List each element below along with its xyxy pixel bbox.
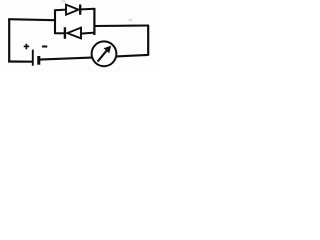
wire: top branch left [54, 9, 66, 12]
meter needle arrow [98, 49, 108, 61]
meter M1 (galvanometer) [92, 41, 117, 66]
wire: bottom branch right [81, 33, 95, 34]
wire: right vertical [147, 25, 149, 55]
wire: top branch right [81, 8, 95, 11]
diode D2 cathode bar [64, 27, 66, 39]
wire: battery to meter [40, 58, 92, 60]
wire: input top horizontal [8, 19, 55, 20]
battery minus label [42, 46, 47, 48]
wire: bottom left to battery [8, 60, 32, 62]
wire: bottom branch left [54, 32, 64, 34]
wire: output horizontal [95, 24, 150, 27]
wire: left vertical [8, 19, 10, 63]
wire: meter to right corner [117, 55, 149, 57]
node: left junction vertical [54, 10, 56, 34]
node: right junction vertical [93, 8, 95, 35]
battery plus label [24, 44, 30, 50]
diode D1 cathode bar [79, 5, 81, 15]
battery negative plate (short thick) [37, 56, 40, 65]
diode D1 triangle (points right) [66, 5, 79, 15]
diode D2 triangle (points left) [67, 28, 81, 39]
pink smudge right [128, 19, 133, 22]
pink smudge top [61, 0, 66, 2]
battery positive plate (long) [32, 50, 34, 66]
